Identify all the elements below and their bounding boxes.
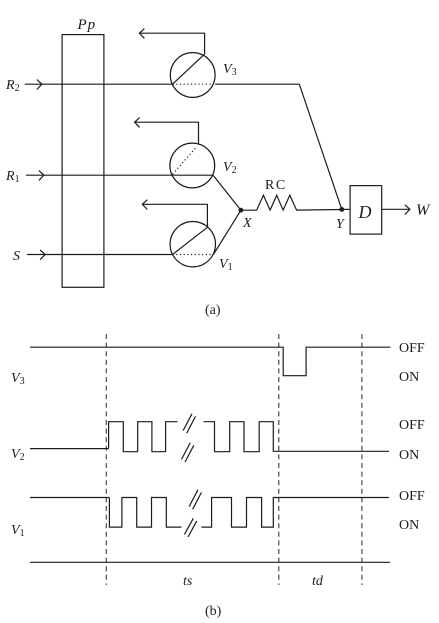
label D: [358, 202, 372, 222]
label Y: [336, 217, 346, 232]
arrowhead V2 control: [135, 118, 140, 128]
svg-text:OFF: OFF: [399, 341, 425, 356]
svg-text:S: S: [13, 249, 20, 264]
box Pp: [62, 35, 104, 288]
node X dot: [239, 208, 244, 213]
valve V1 dotted passage: [173, 254, 214, 256]
label OFF V3: [399, 341, 425, 356]
wire V1 to X: [213, 210, 241, 254]
svg-text:V2: V2: [11, 447, 25, 463]
break marks V1 lower: [185, 518, 197, 537]
valve V2 circle: [170, 143, 215, 188]
svg-text:ts: ts: [183, 574, 193, 589]
signal V2 pulses before break: [109, 422, 178, 452]
svg-text:V3: V3: [223, 62, 237, 78]
svg-text:ON: ON: [399, 370, 419, 385]
label Pp: [77, 17, 97, 33]
valve V2 dotted plug diagonal: [173, 147, 197, 175]
label RC: [265, 178, 287, 193]
valve V3 control arm: [139, 33, 204, 54]
svg-text:OFF: OFF: [399, 489, 425, 504]
svg-text:(a): (a): [205, 303, 221, 318]
svg-text:R2: R2: [5, 78, 20, 94]
signal V1 lead-in: [30, 497, 109, 499]
box D: [350, 186, 382, 235]
label ts: [183, 574, 193, 589]
arrowhead S: [40, 250, 45, 260]
label ON V3: [399, 370, 419, 385]
svg-text:V1: V1: [11, 523, 25, 539]
signal V3 trace: [30, 347, 390, 376]
svg-text:V3: V3: [11, 371, 25, 387]
label X: [242, 216, 252, 231]
arrowhead R2: [37, 80, 42, 90]
label V3 timing: [11, 371, 25, 387]
dashed timeline 1: [105, 334, 107, 585]
label OFF V2: [399, 418, 425, 433]
svg-text:X: X: [242, 216, 252, 231]
resistor RC: [241, 195, 342, 210]
svg-text:td: td: [312, 574, 324, 589]
label R2: [5, 78, 20, 94]
label V2 timing: [11, 447, 25, 463]
svg-text:V2: V2: [223, 160, 237, 176]
node Y dot: [339, 207, 344, 212]
arrowhead V1 control: [142, 200, 147, 210]
label td: [312, 574, 324, 589]
signal V2 pulses after break: [204, 422, 390, 452]
label ON V2: [399, 448, 419, 463]
svg-text:V1: V1: [219, 257, 233, 273]
wire D output: [382, 208, 410, 210]
wire R2: [25, 83, 173, 85]
label V1 timing: [11, 523, 25, 539]
label ON V1: [399, 518, 419, 533]
label R1: [5, 169, 20, 185]
valve V1 control arm: [142, 204, 207, 227]
svg-text:Y: Y: [336, 217, 346, 232]
wire V2 to X: [213, 175, 241, 210]
arrowhead W output: [405, 205, 410, 215]
break marks V2 lower: [182, 443, 194, 463]
signal V2 lead-in: [30, 448, 109, 450]
valve V1 circle: [170, 222, 215, 267]
valve V2 control arm: [135, 122, 199, 144]
valve V1 plug diagonal: [173, 227, 208, 254]
arrowhead V3 control: [139, 29, 144, 39]
break marks V1 upper: [189, 490, 201, 510]
arrowhead R1: [39, 171, 44, 181]
dashed timeline 2: [278, 334, 280, 585]
label (b): [205, 604, 222, 619]
label OFF V1: [399, 489, 425, 504]
svg-text:ON: ON: [399, 518, 419, 533]
valve V3 circle: [170, 53, 215, 98]
label W: [416, 202, 431, 219]
label S: [13, 249, 20, 264]
wire Y to D: [342, 208, 350, 210]
wire V3 output: [215, 84, 342, 209]
svg-text:(b): (b): [205, 604, 222, 619]
wire R1: [26, 174, 213, 176]
svg-text:RC: RC: [265, 178, 287, 193]
valve V3 plug diagonal: [173, 54, 205, 84]
dashed timeline 3: [361, 334, 363, 585]
valve V3 dotted passage: [173, 83, 214, 85]
svg-text:R1: R1: [5, 169, 20, 185]
label V3: [223, 62, 237, 78]
svg-text:ON: ON: [399, 448, 419, 463]
wire S: [27, 254, 173, 256]
label V2: [223, 160, 237, 176]
svg-text:Pp: Pp: [77, 17, 97, 33]
label (a): [205, 303, 221, 318]
label V1: [219, 257, 233, 273]
time axis rail: [30, 561, 390, 563]
signal V1 pulses before break: [109, 498, 181, 528]
svg-text:OFF: OFF: [399, 418, 425, 433]
svg-text:W: W: [416, 202, 431, 219]
break marks V2 upper: [183, 414, 195, 434]
svg-text:D: D: [358, 202, 372, 222]
signal V1 pulses after break: [201, 498, 389, 528]
